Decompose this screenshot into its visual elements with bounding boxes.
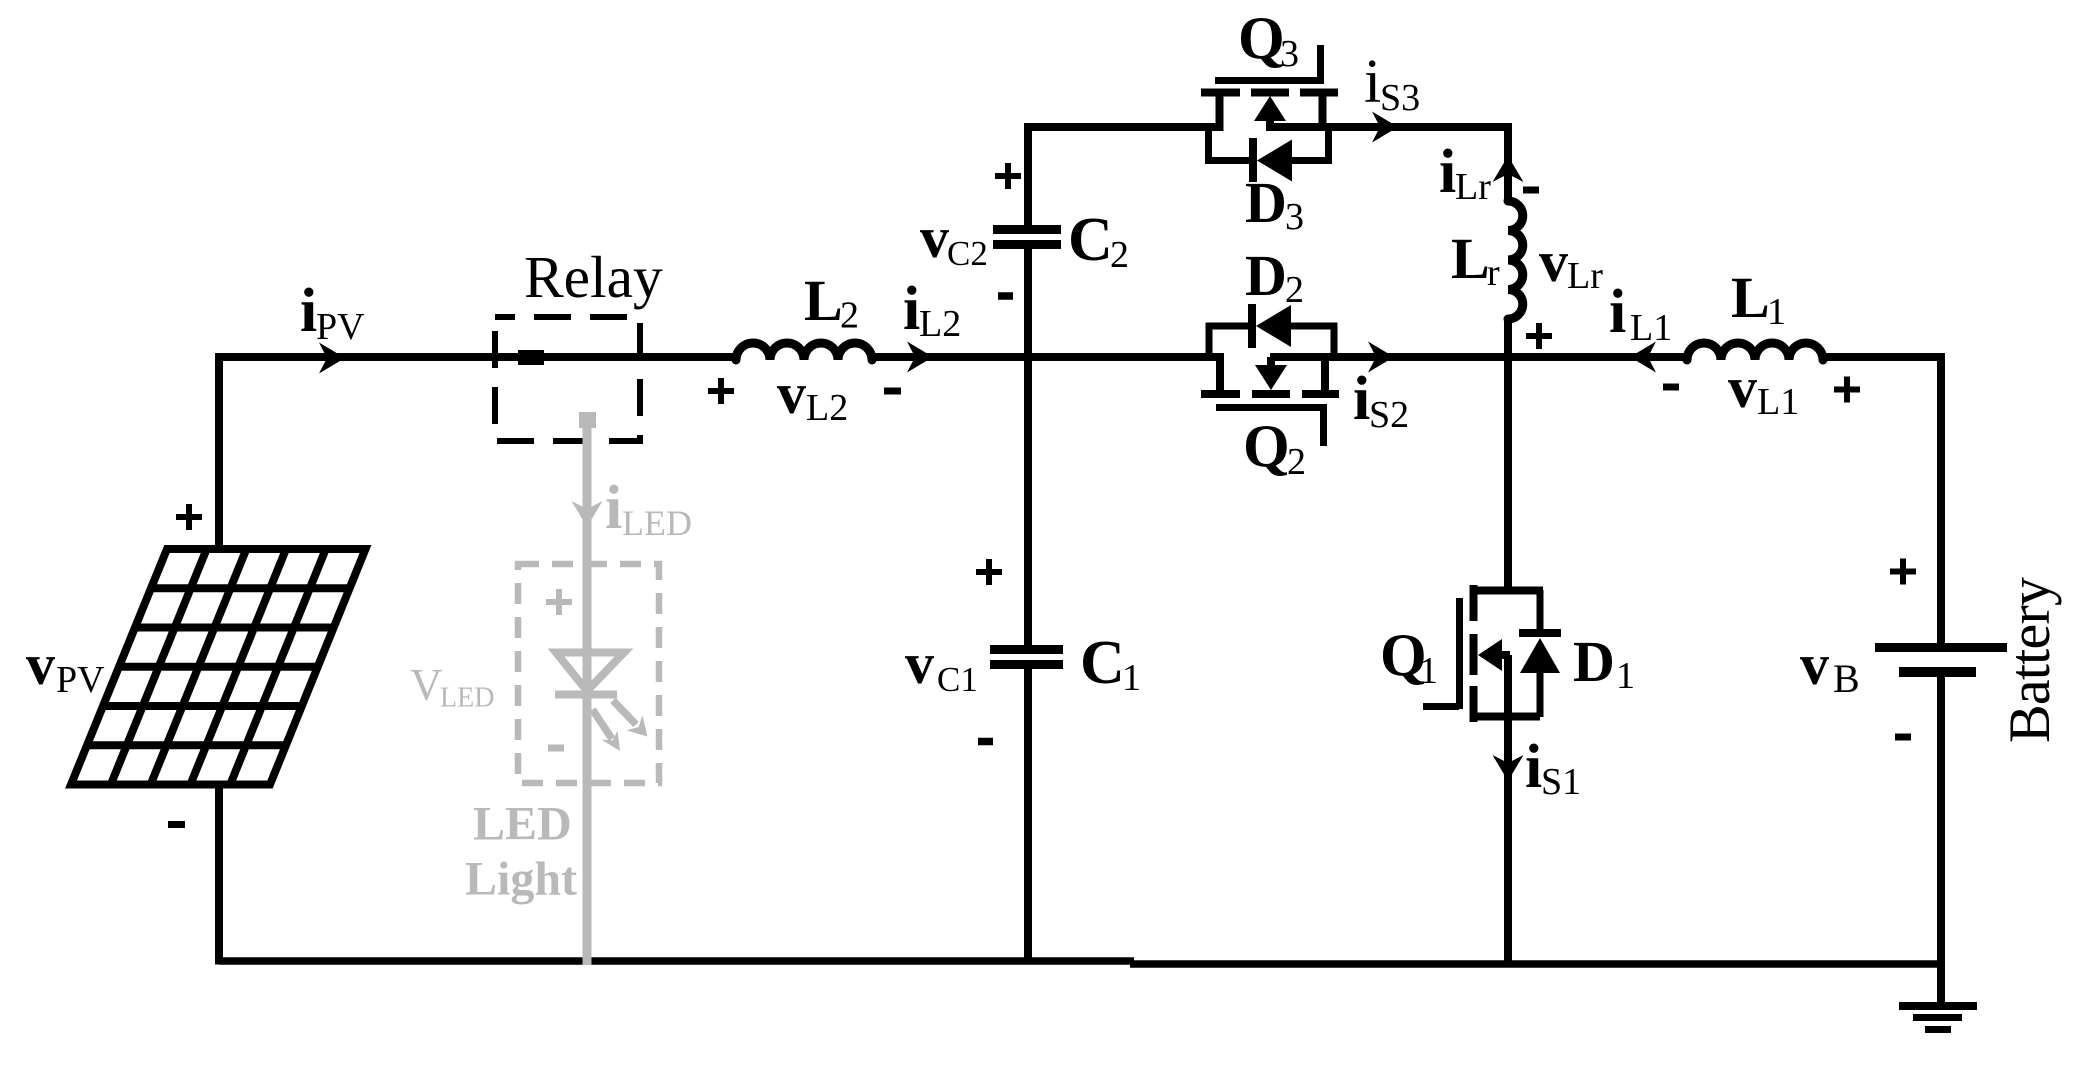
wire: C1 upper vertical	[1024, 353, 1032, 647]
current arrow i_S2	[1368, 342, 1394, 373]
wire: middle rail segment L1 to battery corner	[1821, 353, 1945, 361]
label i_S2	[1353, 365, 1409, 436]
label L1	[1731, 265, 1786, 333]
label i_L1	[1609, 278, 1672, 349]
svg-text:LED: LED	[440, 683, 494, 714]
label minus v_L1	[1663, 384, 1679, 391]
label plus v_L1	[1834, 377, 1860, 403]
wire: C1 lower vertical	[1024, 668, 1032, 965]
svg-text:v: v	[905, 631, 934, 696]
LED branch gray wire	[583, 424, 592, 965]
svg-text:i: i	[1364, 48, 1381, 116]
svg-text:2: 2	[840, 295, 859, 337]
label L2	[804, 268, 859, 337]
label v_PV	[26, 632, 105, 701]
svg-text:LED: LED	[473, 798, 572, 851]
label v_L1	[1728, 355, 1799, 423]
svg-text:L: L	[804, 268, 843, 333]
svg-text:Battery: Battery	[1997, 577, 2062, 743]
wire: C2 upper vertical	[1024, 123, 1032, 226]
label v_B	[1800, 632, 1860, 701]
inductor L1	[1687, 343, 1823, 360]
capacitor C2	[993, 230, 1061, 245]
relay dashed box	[495, 317, 640, 441]
svg-text:i: i	[903, 275, 920, 343]
label plus battery	[1890, 559, 1916, 585]
wire: middle rail segment Q2 to L1	[1270, 353, 1689, 361]
current arrow i_S1	[1493, 755, 1524, 781]
svg-text:S3: S3	[1380, 77, 1420, 119]
svg-text:Q: Q	[1243, 413, 1290, 479]
inductor L2	[736, 343, 872, 360]
wire: battery upper vertical	[1937, 353, 1945, 647]
label plus C2	[995, 163, 1021, 189]
LED dashed box	[518, 564, 659, 783]
label i_S3	[1364, 48, 1420, 119]
wire: PV positive lead vertical	[215, 353, 223, 552]
relay gray terminal square	[579, 412, 596, 428]
svg-text:i: i	[605, 474, 622, 542]
svg-text:Light: Light	[465, 853, 577, 906]
svg-text:Lr: Lr	[1455, 166, 1491, 208]
svg-text:v: v	[1800, 632, 1829, 697]
ground	[1899, 963, 1977, 1030]
current arrow i_PV	[319, 343, 345, 374]
svg-text:2: 2	[1287, 441, 1306, 483]
label i_PV	[300, 277, 365, 348]
svg-text:C: C	[1080, 629, 1125, 697]
label minus LED	[548, 745, 564, 752]
svg-text:B: B	[1833, 656, 1860, 701]
label D1	[1573, 629, 1635, 697]
svg-text:L1: L1	[1757, 381, 1799, 423]
label C1	[1080, 629, 1141, 699]
svg-text:1: 1	[1419, 650, 1438, 692]
label i_LED	[605, 474, 692, 543]
label i_S1	[1525, 733, 1581, 803]
current arrow i_Lr	[1493, 156, 1524, 182]
svg-text:v: v	[26, 632, 55, 697]
battery plates	[1875, 648, 2007, 673]
wire: battery lower vertical	[1937, 672, 1945, 967]
svg-text:S1: S1	[1541, 761, 1581, 803]
label minus v_Lr	[1523, 187, 1539, 194]
wire: Q1 drain vertical	[1504, 353, 1512, 590]
inductor Lr	[1508, 201, 1523, 319]
relay contact solid rectangle	[518, 350, 544, 365]
svg-text:L2: L2	[919, 303, 961, 345]
wire: C2 lower vertical to middle rail	[1024, 248, 1032, 361]
label v_L2	[777, 361, 848, 429]
label plus v_L2	[708, 378, 734, 404]
label i_L2	[903, 275, 961, 345]
svg-text:C2: C2	[947, 234, 988, 273]
svg-text:Q: Q	[1238, 5, 1285, 71]
label plus LED	[546, 589, 572, 615]
label minus C2	[998, 292, 1013, 300]
label D3	[1245, 170, 1304, 238]
label minus PV	[168, 821, 185, 828]
wire: PV negative lead vertical	[215, 781, 223, 965]
transistor Q1	[1423, 585, 1543, 722]
svg-text:D: D	[1245, 243, 1287, 308]
solar panel PV	[71, 549, 366, 785]
LED diode symbol	[555, 653, 624, 695]
wire: top rail Q3 to right corner	[1267, 123, 1512, 131]
label v_C2	[920, 205, 988, 273]
svg-text:PV: PV	[56, 659, 105, 701]
label D2	[1245, 243, 1304, 311]
label minus v_L2	[884, 388, 901, 395]
label minus C1	[978, 738, 993, 746]
current arrow i_L2	[907, 342, 933, 373]
label v_C1	[905, 631, 978, 699]
label plus C1	[976, 559, 1002, 585]
svg-text:S2: S2	[1369, 394, 1409, 436]
svg-text:i: i	[1439, 138, 1456, 206]
wire: bottom rail	[219, 957, 1134, 965]
label minus battery	[1895, 734, 1911, 741]
label Lr	[1451, 226, 1500, 294]
label i_Lr	[1439, 138, 1491, 208]
svg-text:PV: PV	[316, 306, 365, 348]
wire: middle rail segment L2 to Q2 left lead	[872, 353, 1224, 361]
diode D3	[1209, 127, 1329, 161]
svg-text:3: 3	[1285, 196, 1304, 238]
svg-text:v: v	[777, 361, 806, 426]
svg-text:r: r	[1487, 252, 1500, 294]
svg-text:2: 2	[1110, 234, 1129, 276]
svg-text:V: V	[410, 660, 443, 710]
diode D1	[1537, 590, 1544, 717]
svg-text:Relay: Relay	[524, 244, 663, 310]
label C2	[1068, 206, 1129, 276]
wire: middle rail left segment (PV to L2)	[219, 353, 736, 361]
LED emission arrows	[593, 701, 648, 752]
svg-text:C: C	[1068, 206, 1113, 274]
current arrow i_S3	[1372, 112, 1398, 143]
wire: top rail C2 to Q3	[1024, 123, 1223, 131]
label v_Lr	[1539, 229, 1603, 297]
LED current arrow i_LED	[572, 501, 603, 527]
label Q2	[1243, 413, 1306, 483]
label Q1	[1380, 622, 1438, 692]
svg-text:i: i	[300, 277, 317, 345]
svg-text:v: v	[1728, 355, 1757, 420]
svg-text:1: 1	[1122, 657, 1141, 699]
label plus PV	[176, 504, 202, 530]
diode D2	[1209, 326, 1334, 357]
svg-text:i: i	[1609, 278, 1626, 346]
svg-text:L2: L2	[806, 387, 848, 429]
svg-text:1: 1	[1767, 291, 1786, 333]
svg-text:LED: LED	[622, 503, 692, 543]
svg-text:i: i	[1353, 365, 1370, 433]
svg-text:v: v	[1539, 229, 1568, 294]
svg-text:D: D	[1245, 170, 1287, 235]
svg-text:Lr: Lr	[1567, 255, 1603, 297]
svg-text:L1: L1	[1630, 307, 1672, 349]
svg-text:i: i	[1525, 733, 1542, 801]
current arrow i_L1	[1630, 342, 1656, 373]
svg-text:1: 1	[1616, 655, 1635, 697]
svg-text:2: 2	[1285, 269, 1304, 311]
label plus v_Lr	[1526, 323, 1552, 349]
label V_LED	[410, 660, 494, 714]
svg-text:L: L	[1731, 265, 1770, 330]
transistor Q2	[1201, 357, 1339, 446]
transistor Q3	[1201, 45, 1338, 131]
svg-text:D: D	[1573, 629, 1615, 694]
svg-text:v: v	[920, 205, 949, 270]
wire: Q1 source vertical to bottom rail	[1504, 655, 1512, 967]
capacitor C1	[990, 650, 1063, 665]
svg-text:C1: C1	[937, 660, 978, 699]
svg-text:3: 3	[1280, 33, 1299, 75]
wire: Lr branch lower vertical	[1504, 317, 1512, 361]
wire: Lr branch upper vertical	[1504, 123, 1512, 201]
label Q3	[1238, 5, 1299, 75]
svg-text:L: L	[1451, 226, 1490, 291]
